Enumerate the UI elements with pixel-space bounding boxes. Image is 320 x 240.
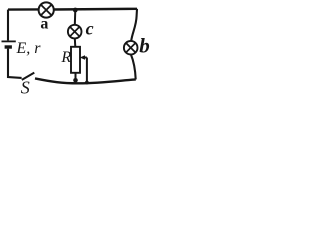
wire top left segment — [8, 8, 39, 11]
wire bottom — [35, 78, 136, 83]
svg-text:b: b — [139, 34, 150, 58]
battery E,r long plate — [2, 40, 16, 42]
rheostat wiper arrow — [80, 55, 87, 83]
wire resistor bottom lead — [75, 73, 77, 80]
switch S lever — [22, 73, 35, 80]
battery E,r short plate — [5, 45, 12, 48]
svg-text:S: S — [21, 78, 30, 98]
resistor R — [71, 47, 80, 73]
svg-text:E, r: E, r — [16, 40, 42, 57]
svg-text:c: c — [86, 19, 94, 39]
lamp a — [39, 2, 54, 17]
node junction top — [73, 8, 78, 13]
wire lamp c to resistor — [74, 38, 77, 47]
node junction bottom left — [73, 78, 78, 83]
wire right side upper — [131, 9, 137, 41]
wire middle branch upper — [74, 10, 77, 25]
lamp c — [68, 25, 82, 39]
wire right side lower — [131, 54, 136, 79]
svg-text:a: a — [40, 16, 48, 33]
wire top right segment — [54, 8, 137, 11]
node junction wiper bottom — [85, 81, 89, 85]
lamp b — [124, 41, 138, 55]
wire left side lower — [8, 49, 22, 78]
wire left side upper — [7, 10, 9, 41]
svg-text:R: R — [60, 49, 71, 66]
